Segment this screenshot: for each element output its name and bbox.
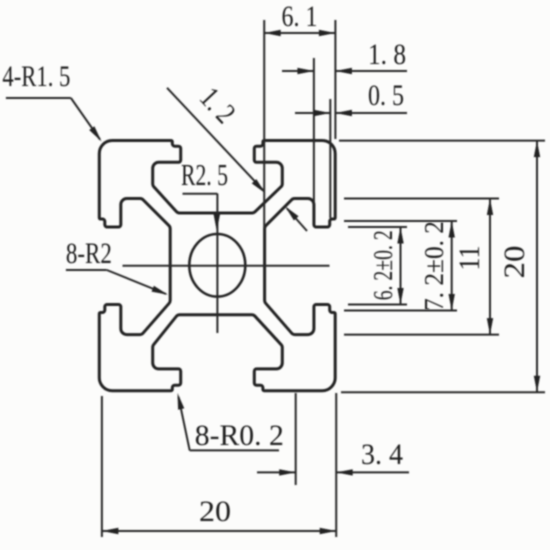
svg-text:20: 20 — [199, 495, 231, 528]
svg-text:0. 5: 0. 5 — [368, 79, 404, 112]
svg-text:8-R0. 2: 8-R0. 2 — [195, 419, 284, 452]
svg-text:8-R2: 8-R2 — [66, 237, 112, 270]
svg-text:6. 1: 6. 1 — [282, 0, 318, 33]
svg-text:1. 8: 1. 8 — [368, 38, 406, 71]
svg-text:20: 20 — [498, 246, 531, 279]
svg-text:4-R1. 5: 4-R1. 5 — [2, 60, 70, 93]
svg-text:3. 4: 3. 4 — [361, 438, 403, 471]
svg-text:7. 2±0. 2: 7. 2±0. 2 — [419, 221, 449, 311]
svg-text:6. 2±0. 2: 6. 2±0. 2 — [368, 230, 398, 300]
svg-text:R2. 5: R2. 5 — [181, 157, 228, 192]
svg-text:11: 11 — [453, 246, 486, 271]
